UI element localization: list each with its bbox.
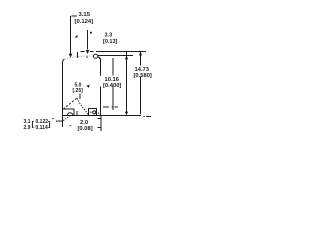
baseline continuation dot	[143, 116, 144, 117]
V2 up arrow tick	[139, 52, 142, 56]
step dot	[90, 112, 91, 113]
left dot	[56, 121, 57, 122]
extension of body right edge below baseline	[100, 116, 102, 132]
arrowhead D2 (down, onto boss top)	[86, 50, 90, 54]
tick arrow lower (points right to x101)	[97, 127, 100, 129]
baseline continuation dash	[146, 115, 151, 117]
dash-dot centerline y=107	[103, 106, 118, 108]
svg-text:[0.13]: [0.13]	[103, 39, 118, 45]
extension line A (boss top level) y=51.5	[81, 51, 146, 53]
leader dash for D1	[72, 15, 78, 17]
body right edge	[100, 60, 102, 116]
internal label "5.0 [.25]"	[73, 83, 84, 95]
internal shelf (left)	[63, 109, 74, 116]
stray dot	[70, 125, 71, 126]
V1 label "10.16 [0.400]"	[100, 76, 124, 89]
dimension label D1 "3.15 [0.124]"	[75, 12, 94, 25]
tick arrow upper (points right to x101)	[97, 117, 100, 119]
svg-text:[.25]: [.25]	[73, 88, 84, 94]
V1 up arrow	[125, 56, 128, 60]
junction dot	[98, 113, 99, 114]
bottom dimension label "2.0 [0.08]"	[78, 120, 93, 132]
leader dot for D2	[90, 32, 92, 34]
svg-text:[0.124]: [0.124]	[75, 19, 94, 25]
svg-text:[0.580]: [0.580]	[134, 73, 152, 79]
internal label NE arrowhead	[86, 85, 89, 88]
arrowhead D1 (down, onto body top)	[69, 54, 73, 58]
internal notch	[76, 111, 78, 116]
left arrow tick at y121	[58, 120, 63, 122]
leader vertical for D1	[70, 16, 72, 54]
tick at top of x101 extension	[99, 58, 101, 60]
bottom-left label (pin size with tolerances)	[24, 118, 56, 131]
body top dome (faint)	[64, 56, 93, 59]
terminal circle on body top-right	[94, 54, 98, 58]
left extension below baseline x=62.5	[62, 116, 64, 128]
svg-text:2.9: 2.9	[24, 125, 31, 131]
internal label leader down	[79, 94, 81, 100]
svg-text:[0.400]: [0.400]	[103, 83, 121, 89]
svg-text:0.114: 0.114	[36, 125, 48, 131]
svg-text:3.3: 3.3	[105, 33, 113, 39]
boss (pip) on body top	[77, 52, 79, 58]
body top-right corner	[98, 57, 101, 61]
dimension label D2 "3.3 [0.13]"	[103, 33, 118, 46]
leader vertical for D2	[87, 30, 89, 50]
dimension line V1 x=126.5 (body height)	[126, 52, 128, 114]
step circle	[93, 111, 96, 114]
V1 down arrow	[125, 112, 128, 116]
bottom baseline	[63, 115, 142, 117]
V2 label "14.73 [0.580]"	[134, 67, 152, 79]
lever hidden line (dashed diagonal)	[63, 97, 78, 109]
leader dotted diagonal to pin	[63, 115, 71, 121]
step detail (bottom right inside body)	[89, 109, 97, 116]
roller arc (left)	[67, 113, 73, 116]
pin centerline x=113	[112, 58, 114, 110]
svg-text:3.15: 3.15	[79, 12, 91, 18]
extension line B (body top level) y=55.5	[98, 55, 133, 57]
body left edge	[63, 59, 65, 115]
small arrowhead blob near leader	[75, 35, 78, 38]
svg-text:[0.08]: [0.08]	[78, 126, 93, 132]
dimension line V2 x=140.5 (overall height)	[140, 52, 142, 114]
lever arm (dotted diagonal)	[77, 98, 89, 115]
